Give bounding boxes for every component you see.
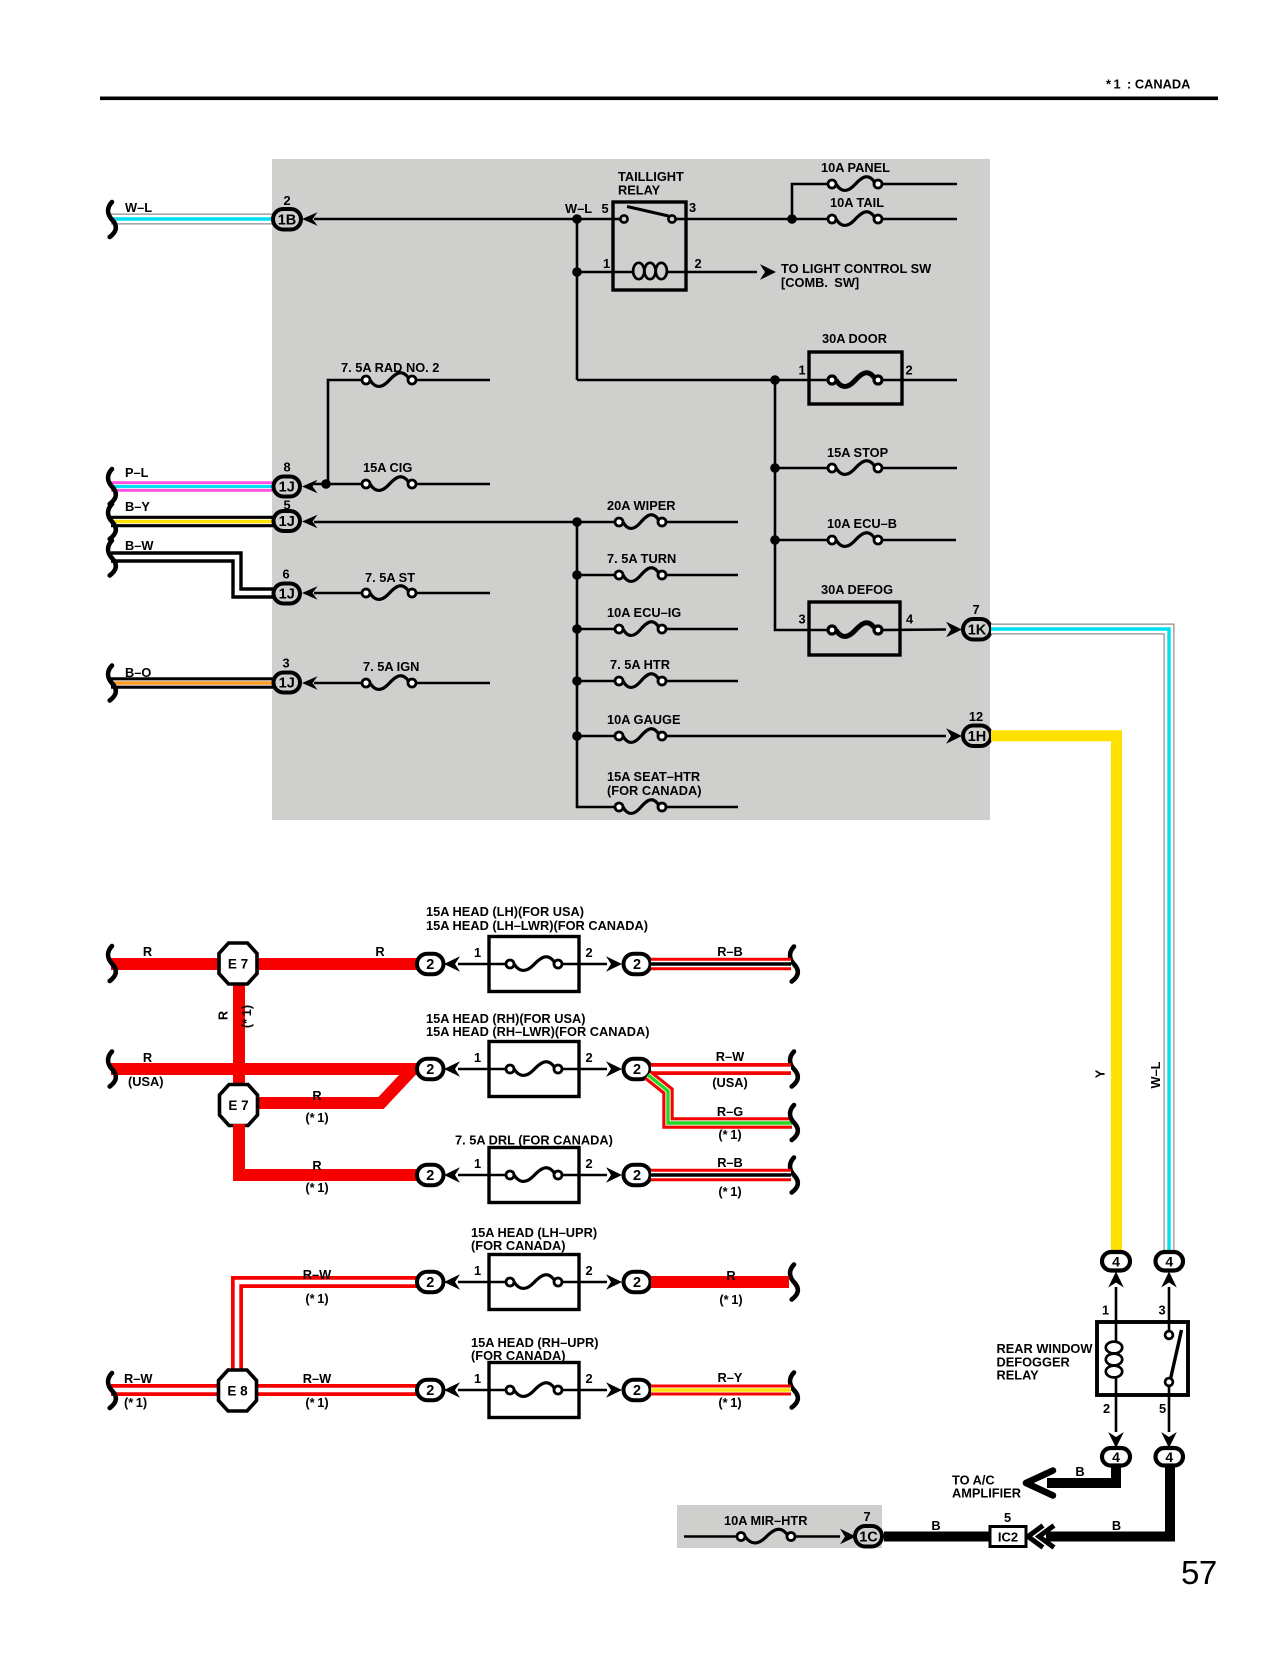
arrow into left 2 row3 (444, 1167, 460, 1183)
wire W-L from 1K to defogger relay pin3 (991, 629, 1169, 1252)
fuse 15A HEAD LH body (458, 937, 607, 992)
fuse 10A MIR-HTR (684, 1513, 840, 1543)
wire door fuse row (577, 379, 957, 382)
svg-text:10A MIR–HTR: 10A MIR–HTR (724, 1513, 807, 1528)
fuse 10A ECU-IG (577, 605, 738, 635)
svg-text:1: 1 (1102, 1303, 1109, 1318)
wire B from 4 to IC2 (1046, 1464, 1170, 1537)
svg-text:4: 4 (1165, 1253, 1173, 1269)
svg-text:5: 5 (283, 498, 290, 513)
svg-text:(* 1): (* 1) (239, 1005, 254, 1028)
svg-text:57: 57 (1181, 1554, 1217, 1591)
label R-W (USA) row2 right (712, 1049, 748, 1090)
junction ecu-ig row (572, 624, 582, 634)
svg-text:2: 2 (633, 1383, 641, 1399)
svg-text:R: R (143, 944, 152, 959)
junction IC2 pin5 (990, 1510, 1026, 1547)
svg-text:7. 5A IGN: 7. 5A IGN (363, 659, 419, 674)
break mark row1 left (108, 946, 116, 981)
svg-text:10A PANEL: 10A PANEL (821, 160, 890, 175)
connector 1J pin 8 (274, 460, 301, 497)
wire R row2 canada branch (245, 1070, 412, 1103)
wire R-W row4 (237, 1282, 417, 1390)
junction cig row (321, 479, 331, 489)
svg-text:1K: 1K (968, 622, 987, 638)
connector 1B pin 2 (273, 193, 301, 230)
svg-text:R: R (726, 1268, 735, 1283)
svg-text:7. 5A ST: 7. 5A ST (365, 570, 415, 585)
junction wiper row (572, 517, 582, 527)
svg-text:2: 2 (585, 1156, 592, 1171)
svg-text:15A HEAD (RH–LWR)(FOR CANADA): 15A HEAD (RH–LWR)(FOR CANADA) (426, 1024, 649, 1039)
connector 2-pin left row2 (417, 1059, 444, 1080)
fuse 15A CIG (314, 460, 490, 490)
svg-text:1B: 1B (278, 212, 297, 228)
fuse 15A HEAD RH-UPR label (471, 1335, 599, 1363)
junction block E7 upper (219, 943, 257, 984)
wire Y from 1H to defogger relay pin1 (991, 736, 1117, 1252)
fuse 15A HEAD LH-UPR body (458, 1255, 607, 1310)
label B-Y (125, 499, 150, 514)
junction door row (770, 375, 780, 385)
svg-text:7: 7 (972, 602, 979, 617)
svg-text:1J: 1J (279, 514, 295, 530)
arrow into 1B (302, 212, 318, 226)
connector 2-pin left row4 (417, 1272, 444, 1293)
svg-text:2: 2 (426, 957, 434, 973)
svg-text:4: 4 (1165, 1449, 1173, 1465)
page number 57 (1181, 1554, 1217, 1591)
label B (A/C) (1075, 1464, 1084, 1479)
label B-W (125, 538, 154, 553)
svg-text:R: R (143, 1050, 152, 1065)
svg-text:2: 2 (585, 1371, 592, 1386)
svg-text:15A HEAD (LH)(FOR USA): 15A HEAD (LH)(FOR USA) (426, 904, 584, 919)
label R-G (*1) (717, 1104, 743, 1142)
svg-text:7. 5A TURN: 7. 5A TURN (607, 551, 676, 566)
taillight relay U-relay box (613, 169, 686, 290)
arrow down to 4 (pin5) (1161, 1432, 1177, 1448)
fuse/relay block background (272, 159, 990, 820)
arrow into right 2 row3 (606, 1167, 622, 1183)
svg-text:10A ECU–B: 10A ECU–B (827, 516, 897, 531)
connector 2-pin left row5 (417, 1380, 444, 1401)
label R-B (*1) row3 (717, 1155, 743, 1199)
junction htr row (572, 676, 582, 686)
svg-text:R–Y: R–Y (718, 1370, 743, 1385)
break mark row1 right (790, 947, 798, 982)
svg-text:E 7: E 7 (228, 1098, 248, 1113)
arrow into 1K (946, 622, 962, 638)
label R (*1) row3 (305, 1158, 328, 1195)
svg-text:B–Y: B–Y (125, 499, 150, 514)
wire P-L to 1J pin 8 (111, 481, 273, 491)
svg-text:R: R (312, 1158, 321, 1173)
arrow up into 4 (pin3) (1161, 1272, 1177, 1288)
svg-text:7. 5A HTR: 7. 5A HTR (610, 657, 670, 672)
label W-L (125, 200, 152, 215)
svg-text:(FOR CANADA): (FOR CANADA) (471, 1238, 566, 1253)
fuse 15A STOP (775, 445, 957, 474)
arrow into right 2 row1 (606, 956, 622, 972)
svg-text:15A HEAD (LH–LWR)(FOR CANADA): 15A HEAD (LH–LWR)(FOR CANADA) (426, 918, 648, 933)
arrow into right 2 row4 (606, 1274, 622, 1290)
break mark W-L left (108, 202, 116, 237)
label B (IC2 right) (1112, 1518, 1121, 1533)
wire branch up to 10A PANEL (792, 184, 957, 219)
wire 20A WIPER row (314, 521, 738, 524)
svg-text:B: B (1112, 1518, 1121, 1533)
wire pin3 lead (1168, 1287, 1171, 1331)
wire relay pin3 to panel/tail fuses (686, 218, 957, 221)
connector 4 upper right (W-L) (1156, 1252, 1184, 1271)
fuse 7.5A RAD NO.2 (328, 360, 490, 484)
wire R row1 left (111, 958, 417, 970)
svg-text:(* 1): (* 1) (718, 1127, 741, 1142)
wire R-W row5 left (111, 1384, 417, 1396)
vertical wire from 1B row down to door row (576, 219, 579, 380)
break mark B-Y (108, 504, 116, 539)
break mark row2 right (790, 1052, 798, 1087)
label to A/C amplifier (952, 1473, 1021, 1501)
svg-text:2: 2 (426, 1062, 434, 1078)
svg-text:RELAY: RELAY (997, 1368, 1040, 1383)
svg-text:R: R (312, 1088, 321, 1103)
svg-text:3: 3 (689, 200, 696, 215)
junction block E7 lower (220, 1085, 258, 1126)
fuse 10A TAIL (828, 195, 884, 225)
connector 4 lower left (1102, 1448, 1130, 1466)
junction gauge row (572, 731, 582, 741)
label R (*1) row2 mid (305, 1088, 328, 1125)
svg-text:1: 1 (474, 1050, 481, 1065)
svg-text:2: 2 (585, 1050, 592, 1065)
break mark P-L (108, 469, 116, 504)
svg-text:3: 3 (1158, 1303, 1165, 1318)
svg-text:30A DEFOG: 30A DEFOG (821, 582, 893, 597)
arrow to light control switch (760, 264, 776, 280)
rear window defogger relay box (1097, 1322, 1188, 1395)
svg-text:B–O: B–O (125, 665, 151, 680)
arrow into 1C (840, 1529, 856, 1545)
fuse 7.5A TURN (577, 551, 738, 581)
label R (*1) row4 right (719, 1268, 742, 1307)
label Y rotated (1093, 1069, 1108, 1078)
svg-text:2: 2 (905, 363, 912, 378)
label to light control sw (781, 261, 932, 290)
svg-text:R: R (216, 1011, 231, 1020)
fuse 7.5A DRL label (455, 1133, 613, 1148)
svg-text:AMPLIFIER: AMPLIFIER (952, 1486, 1021, 1501)
connector 2-pin right row3 (624, 1165, 651, 1186)
relay switch contacts (613, 207, 686, 223)
label R row1 left (143, 944, 152, 959)
svg-text:4: 4 (1112, 1253, 1120, 1269)
label W-L rotated (1148, 1061, 1163, 1088)
svg-text:(* 1): (* 1) (718, 1395, 741, 1410)
svg-text:10A TAIL: 10A TAIL (830, 195, 884, 210)
vertical wire door to defog (775, 380, 828, 630)
connector 1J pin 3 (274, 656, 301, 693)
svg-text:5: 5 (601, 201, 608, 216)
break mark row3 right (790, 1158, 798, 1193)
wire W-L to connector 1B (111, 214, 273, 225)
wire R-Y row5 right (651, 1385, 791, 1396)
header rule (100, 97, 1218, 101)
fuse 7.5A IGN (314, 659, 490, 689)
fuse 15A HEAD LH label (426, 904, 648, 933)
svg-text:2: 2 (633, 1168, 641, 1184)
svg-text:7. 5A RAD NO. 2: 7. 5A RAD NO. 2 (341, 360, 439, 375)
svg-text:15A CIG: 15A CIG (363, 460, 412, 475)
junction panel/tail branch (787, 214, 797, 224)
svg-text:1H: 1H (968, 729, 987, 745)
svg-text:Y: Y (1093, 1069, 1108, 1078)
svg-text:B: B (1075, 1464, 1084, 1479)
svg-text:4: 4 (906, 612, 914, 627)
label R-B row1 (717, 944, 743, 959)
label *1 rotated (239, 1005, 254, 1028)
junction stop row (770, 463, 780, 473)
arrow into left 2 row2 (444, 1061, 460, 1077)
svg-text:E 8: E 8 (227, 1384, 248, 1399)
svg-text:7: 7 (863, 1509, 870, 1524)
svg-text:W–L: W–L (565, 201, 592, 216)
junction turn row (572, 570, 582, 580)
svg-text:R–W: R–W (124, 1371, 153, 1386)
fuse 10A ECU-B (775, 516, 956, 546)
svg-text:R–W: R–W (716, 1049, 745, 1064)
label rear window defogger relay (997, 1341, 1094, 1383)
defogger relay coil (1106, 1342, 1122, 1432)
connector 1H pin 12 (963, 709, 991, 746)
break mark row5 left (108, 1373, 116, 1408)
svg-text:2: 2 (585, 1263, 592, 1278)
break mark R-G right (790, 1105, 798, 1140)
wire B-Y to 1J pin 5 (111, 516, 273, 527)
svg-text:15A STOP: 15A STOP (827, 445, 889, 460)
chevrons into IC2 (1028, 1526, 1054, 1548)
svg-text:6: 6 (282, 567, 289, 582)
arrow into left 2 row5 (444, 1382, 460, 1398)
connector 1J pin 6 (274, 567, 301, 604)
svg-text:P–L: P–L (125, 465, 149, 480)
wire R row2 left (USA) (111, 1063, 417, 1075)
svg-text:8: 8 (283, 460, 290, 475)
svg-text:B: B (931, 1518, 940, 1533)
svg-text:5: 5 (1159, 1401, 1166, 1416)
fuse 15A HEAD RH label (426, 1011, 649, 1039)
connector 2-pin right row1 (624, 954, 651, 975)
junction ecu-b row (770, 535, 780, 545)
wire 1B to taillight relay pin 5 (314, 218, 613, 221)
break mark B-O (108, 666, 116, 701)
svg-text:1: 1 (603, 256, 610, 271)
junction at W-L relay branch (572, 214, 582, 224)
svg-text:2: 2 (633, 1275, 641, 1291)
svg-text:(FOR CANADA): (FOR CANADA) (607, 783, 702, 798)
wire R-G row2 right (*1) (648, 1075, 792, 1123)
wire B-W to 1J pin 6 (111, 557, 274, 593)
svg-text:2: 2 (426, 1383, 434, 1399)
svg-text:1J: 1J (279, 676, 295, 692)
fuse 30A DOOR (798, 331, 912, 404)
connector 1J pin 5 (274, 498, 301, 532)
svg-text:2: 2 (426, 1275, 434, 1291)
arrow into 1J pin 3 (302, 676, 318, 690)
mirror-heater fuse block background (677, 1505, 882, 1548)
arrow to A/C amplifier (1026, 1471, 1053, 1496)
defogger relay switch (1165, 1330, 1181, 1432)
wire R-B row3 right (651, 1169, 791, 1182)
svg-text:R–W: R–W (303, 1371, 332, 1386)
break mark row4 right (790, 1265, 798, 1300)
svg-text:10A ECU–IG: 10A ECU–IG (607, 605, 681, 620)
arrow into 1J pin 5 (302, 515, 318, 529)
svg-text:RELAY: RELAY (618, 183, 661, 198)
svg-text:R–W: R–W (303, 1267, 332, 1282)
fuse 10A PANEL (821, 160, 890, 190)
svg-text:3: 3 (282, 656, 289, 671)
svg-text:1: 1 (474, 1156, 481, 1171)
svg-text:20A WIPER: 20A WIPER (607, 498, 676, 513)
svg-text:3: 3 (798, 612, 805, 627)
arrow into 1H (946, 728, 962, 744)
svg-text:2: 2 (694, 256, 701, 271)
svg-text:15A SEAT–HTR: 15A SEAT–HTR (607, 769, 700, 784)
break mark row5 right (790, 1373, 798, 1408)
fuse 7.5A ST (314, 570, 490, 599)
label R (USA) row2 (128, 1050, 164, 1089)
connector 4 lower right (1156, 1448, 1184, 1466)
fuse 15A SEAT-HTR (607, 769, 738, 813)
svg-text:4: 4 (1112, 1449, 1120, 1465)
label R-W (*1) row5 left (124, 1371, 153, 1410)
connector 2-pin left row3 (417, 1165, 444, 1186)
wire B-O to 1J pin 3 (111, 677, 273, 688)
wire R vertical E7 to DRL row (239, 1124, 417, 1175)
svg-text:B–W: B–W (125, 538, 154, 553)
relay pin labels (565, 200, 702, 271)
svg-text:(* 1): (* 1) (305, 1395, 328, 1410)
arrow down to 4 (pin2) (1108, 1432, 1124, 1448)
svg-text:30A DOOR: 30A DOOR (822, 331, 887, 346)
svg-text:1J: 1J (279, 480, 295, 496)
svg-text:R–B: R–B (717, 1155, 743, 1170)
svg-text:R: R (375, 944, 384, 959)
fuse 7.5A HTR (577, 657, 738, 687)
vertical wire R E7 to E7 (233, 963, 245, 1105)
svg-text:R–G: R–G (717, 1104, 743, 1119)
fuse 30A DEFOG (798, 582, 946, 655)
svg-text:2: 2 (585, 945, 592, 960)
svg-text:W–L: W–L (125, 200, 152, 215)
svg-text:(* 1): (* 1) (124, 1395, 147, 1410)
wire B 1C to IC2 (884, 1532, 990, 1542)
connector 1K pin 7 (963, 602, 991, 640)
arrow into 1J pin 8 (302, 480, 318, 494)
svg-text:2: 2 (1103, 1401, 1110, 1416)
junction relay coil pin1 (572, 267, 582, 277)
label R-W (*1) row4 (303, 1267, 332, 1306)
connector 4 upper left (Y) (1102, 1252, 1130, 1271)
svg-text:1: 1 (798, 363, 805, 378)
arrow into right 2 row5 (606, 1382, 622, 1398)
fuse 15A HEAD RH body (458, 1042, 607, 1097)
svg-text:10A GAUGE: 10A GAUGE (607, 712, 681, 727)
svg-text:1: 1 (474, 945, 481, 960)
break mark B-W (108, 541, 116, 576)
svg-text:1: 1 (474, 1263, 481, 1278)
svg-text:12: 12 (969, 709, 983, 724)
junction block E8 (219, 1370, 257, 1411)
svg-text:1: 1 (474, 1371, 481, 1386)
svg-text:R–B: R–B (717, 944, 743, 959)
connector 2-pin right row5 (624, 1380, 651, 1401)
svg-text:* 1 : CANADA: * 1 : CANADA (1106, 77, 1190, 92)
wire relay pin1 (577, 271, 633, 274)
label P-L (125, 465, 149, 480)
label R row1 mid (375, 944, 384, 959)
wire R-B row1 right (651, 958, 791, 971)
connector 2-pin right row2 (624, 1059, 651, 1080)
svg-text:1C: 1C (859, 1529, 878, 1545)
svg-text:(* 1): (* 1) (719, 1292, 742, 1307)
svg-text:TO LIGHT CONTROL SW: TO LIGHT CONTROL SW (781, 261, 932, 276)
label B-O (125, 665, 151, 680)
fuse 15A HEAD RH-UPR body (458, 1363, 607, 1418)
connector 2-pin left row1 (417, 954, 444, 975)
relay pin numbers (1102, 1303, 1166, 1417)
svg-text:W–L: W–L (1148, 1061, 1163, 1088)
svg-text:2: 2 (283, 193, 290, 208)
svg-text:2: 2 (426, 1168, 434, 1184)
connector 2-pin right row4 (624, 1272, 651, 1293)
arrow into left 2 row1 (444, 956, 460, 972)
svg-text:(* 1): (* 1) (305, 1180, 328, 1195)
svg-text:(USA): (USA) (128, 1074, 164, 1089)
svg-text:(* 1): (* 1) (305, 1110, 328, 1125)
vertical wire wiper column (577, 522, 615, 807)
svg-text:[COMB. SW]: [COMB. SW] (781, 275, 859, 290)
fuse 15A HEAD LH-UPR label (471, 1225, 597, 1253)
arrow into left 2 row4 (444, 1274, 460, 1290)
connector 1C pin 7 (855, 1509, 882, 1547)
label R-Y (*1) row5 right (718, 1370, 743, 1410)
arrow into 1J pin 6 (302, 586, 318, 600)
break mark row2 left (108, 1052, 116, 1087)
svg-text:(USA): (USA) (712, 1075, 748, 1090)
wire R row4 right (651, 1276, 789, 1288)
svg-text:5: 5 (1004, 1510, 1011, 1525)
relay coil (633, 263, 757, 279)
svg-text:(* 1): (* 1) (718, 1184, 741, 1199)
label R-W (*1) row5 mid (303, 1371, 332, 1410)
svg-text:(FOR CANADA): (FOR CANADA) (471, 1348, 566, 1363)
wire pin1 lead (1115, 1287, 1118, 1341)
fuse 10A GAUGE (577, 712, 946, 742)
label B (1C right) (931, 1518, 940, 1533)
fuse 7.5A DRL body (458, 1148, 607, 1203)
label R rotated (216, 1011, 231, 1020)
svg-text:(* 1): (* 1) (305, 1291, 328, 1306)
svg-text:7. 5A DRL (FOR CANADA): 7. 5A DRL (FOR CANADA) (455, 1133, 613, 1148)
svg-text:2: 2 (633, 1062, 641, 1078)
wire R-W row2 right (USA) (651, 1063, 791, 1075)
fuse 20A WIPER (607, 498, 676, 528)
arrow into right 2 row2 (606, 1061, 622, 1077)
header note *1 CANADA (1106, 77, 1190, 92)
